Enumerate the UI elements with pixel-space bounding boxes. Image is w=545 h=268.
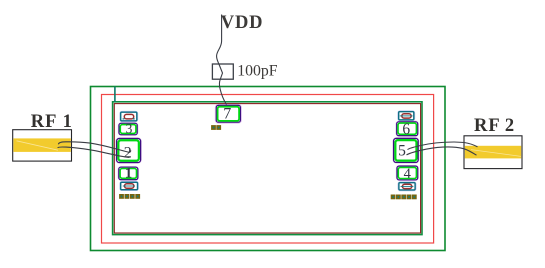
pad 7 (top VDD pad): [215, 105, 241, 124]
RF2 port box: [464, 136, 522, 169]
RF2 microstrip (yellow): [465, 146, 521, 159]
pad 5: [393, 138, 419, 163]
wire VDD to capacitor: [217, 15, 222, 65]
svg-text:7: 7: [223, 106, 231, 123]
RF1 port box: [13, 130, 72, 161]
pad 1: [118, 166, 138, 182]
svg-text:3: 3: [126, 121, 133, 136]
right small pad (bottom, teal): [398, 182, 416, 191]
svg-text:1: 1: [125, 166, 132, 182]
wire pad 5 to RF2 (upper): [408, 142, 478, 150]
wire RF1 to pad 2 (lower): [58, 147, 130, 158]
left small pad (top, teal): [120, 112, 138, 122]
right filler squares row: [392, 195, 416, 198]
wire RF1 to pad 2 (upper): [58, 142, 130, 153]
left small pad (bottom, teal): [120, 182, 138, 191]
svg-text:5: 5: [398, 143, 406, 160]
right small pad (top, teal): [398, 111, 415, 121]
RF1 microstrip (yellow): [13, 138, 70, 152]
wire through capacitor down to pad 7: [219, 64, 227, 105]
wire pad 5 to RF2 (lower): [407, 147, 477, 155]
filler squares below pad 7: [212, 126, 220, 129]
svg-text:100pF: 100pF: [237, 62, 278, 79]
svg-text:2: 2: [124, 144, 132, 161]
svg-text:4: 4: [404, 166, 412, 182]
pad 6: [396, 121, 418, 138]
svg-text:RF2: RF2: [474, 116, 515, 136]
pad 2: [116, 138, 141, 163]
pad 3: [118, 121, 137, 136]
pad 4: [396, 166, 418, 182]
corner stitch stub (teal vertical): [114, 87, 116, 103]
svg-text:VDD: VDD: [221, 13, 263, 33]
seal ring (red rectangle): [102, 95, 434, 244]
chip boundary dark red rectangle: [114, 104, 420, 233]
outer guard ring (green rectangle): [91, 87, 446, 251]
left filler squares row: [120, 195, 139, 198]
svg-text:RF1: RF1: [31, 112, 73, 132]
capacitor C1 body: [212, 64, 233, 79]
svg-text:6: 6: [402, 121, 410, 138]
chip boundary green rectangle: [113, 102, 422, 235]
